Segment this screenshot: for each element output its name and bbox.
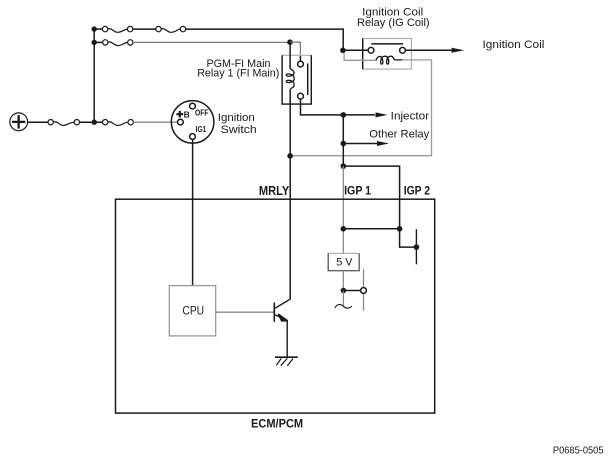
node other relay branch — [341, 141, 347, 147]
node IG relay feed — [340, 48, 346, 54]
ground — [275, 357, 298, 366]
relay K1 coil — [286, 69, 294, 89]
wire to relay switch contact (gray L) — [290, 42, 300, 58]
wire IGP1 gray into ECM — [342, 166, 344, 253]
wire — [94, 28, 102, 30]
relay K2 coil (gray feed + black coil) — [344, 53, 376, 60]
node FI main feed — [287, 39, 293, 45]
fuse F2 (top line) — [156, 26, 186, 32]
wire IGP2 internal stub — [400, 229, 417, 247]
wire coil return (gray) — [290, 60, 431, 156]
wire — [133, 28, 156, 30]
svg-text:IGP 2: IGP 2 — [404, 184, 431, 198]
wire feed to contact — [343, 49, 368, 51]
svg-text:ECM/PCM: ECM/PCM — [251, 417, 303, 431]
relay K2 ignition coil box — [363, 39, 412, 70]
wire top line to IG coil relay — [186, 29, 344, 50]
node IGP1/IGP2 tie right — [397, 226, 403, 232]
svg-text:Ignition: Ignition — [218, 112, 255, 124]
wire 5V down — [342, 271, 344, 291]
svg-text:5 V: 5 V — [336, 257, 353, 269]
node MRLY / coil return junction — [287, 153, 293, 159]
wire other relay arrow — [343, 143, 377, 145]
svg-text:Injector: Injector — [391, 110, 430, 122]
CPU box — [169, 286, 215, 336]
node stub junction — [414, 244, 420, 250]
relay K2 switch contacts — [368, 44, 405, 53]
terminal open circle — [361, 288, 367, 294]
svg-text:Ignition Coil: Ignition Coil — [483, 39, 545, 51]
terminal stub line (gray) — [363, 269, 365, 311]
wire IG1 to CPU — [192, 140, 194, 286]
node IGP2 branch — [341, 163, 347, 169]
transistor Q1 — [274, 300, 289, 322]
wire injector arrow — [343, 114, 375, 116]
wire tie — [343, 228, 399, 230]
wire IGP2 branch — [343, 166, 399, 229]
battery — [10, 113, 28, 131]
regulator 5V box — [328, 253, 359, 270]
wire CPU to transistor base (gray) — [215, 311, 274, 313]
wire to terminal — [343, 290, 360, 292]
svg-text:Relay (IG Coil): Relay (IG Coil) — [357, 17, 430, 29]
wire relay K1 output to injector node — [301, 99, 344, 115]
node top line 1 — [92, 26, 97, 31]
node 5V out — [341, 288, 347, 294]
ignition switch — [171, 101, 214, 144]
wire to sensors (tilde break) — [335, 291, 352, 309]
fuse F4 (battery line right) — [103, 120, 134, 126]
ECM/PCM box — [116, 199, 435, 413]
node battery junction — [92, 120, 97, 125]
svg-text:B: B — [184, 109, 190, 119]
svg-text:IG1: IG1 — [196, 124, 207, 134]
svg-text:Relay 1 (FI Main): Relay 1 (FI Main) — [197, 68, 279, 80]
wire line2 to FI main relay (gray) — [133, 41, 290, 43]
relay K1 PGM-FI main box — [282, 55, 311, 104]
node top line 2 — [92, 40, 97, 45]
wire relay K2 output — [405, 49, 451, 51]
wire emitter down — [286, 320, 288, 357]
fuse F5 (line 2) — [94, 40, 133, 46]
fuse F3 (battery line left) — [48, 120, 80, 126]
fuse F1 (top line) — [102, 26, 132, 32]
svg-text:MRLY: MRLY — [259, 184, 290, 198]
svg-text:OFF: OFF — [195, 108, 209, 118]
internal terminal bar — [415, 229, 417, 264]
svg-text:IGP 1: IGP 1 — [344, 184, 371, 198]
wire MRLY (collector up to fuse line) — [289, 42, 291, 69]
arrow to ignition coil — [452, 48, 465, 53]
svg-text:P0685-0505: P0685-0505 — [553, 445, 604, 456]
wire riser to top lines — [93, 29, 95, 122]
svg-text:CPU: CPU — [182, 305, 204, 317]
node injector branch — [341, 112, 347, 118]
node IGP1/IGP2 tie left — [341, 226, 347, 232]
wire IGP1 vertical black — [342, 115, 344, 168]
relay K1 switch contacts — [298, 56, 308, 99]
wire battery to fuse — [28, 121, 48, 123]
wire fuse to junction — [80, 121, 103, 123]
svg-text:Switch: Switch — [221, 124, 257, 136]
wire fuse to ignition switch (gray) — [133, 121, 177, 123]
svg-text:Other Relay: Other Relay — [369, 129, 430, 141]
